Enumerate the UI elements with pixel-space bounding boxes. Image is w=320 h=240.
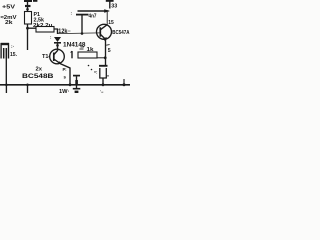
svg-text:15: 15: [108, 20, 114, 26]
svg-text:33: 33: [111, 4, 117, 10]
wire node B to T2 base: [58, 32, 100, 35]
junction dot emitter node: [104, 56, 107, 59]
wire R3 to emitter node: [97, 57, 105, 59]
node A junction dot: [26, 27, 29, 30]
svg-text:,,: ,,: [107, 72, 109, 77]
cap C2 thick lead: [75, 80, 78, 85]
capacitor C3 top plate: [99, 65, 108, 67]
ground terminal: [73, 85, 81, 93]
junction dots on rail: [5, 83, 125, 86]
svg-text:+5V: +5V: [2, 4, 15, 10]
svg-text:1N4148: 1N4148: [63, 42, 86, 49]
wire top rail y11: [78, 10, 109, 12]
svg-text:5: 5: [108, 48, 111, 54]
wire: [27, 1, 29, 12]
svg-text:15.: 15.: [10, 52, 17, 58]
wire segment mark: [71, 51, 73, 58]
wire R2 to diode: [54, 29, 58, 34]
capacitor C2 plate: [73, 75, 80, 77]
transistor T2: [97, 24, 112, 39]
svg-text:·12k··: ·12k··: [57, 29, 72, 35]
node junction dot left rail: [26, 8, 29, 11]
stub right rail: [123, 79, 125, 85]
junction dot cap lead: [81, 32, 84, 35]
wire mic to rail: [5, 59, 7, 85]
diode D1 1N4148: [54, 37, 61, 50]
svg-text:T1: T1: [42, 54, 49, 60]
svg-text:2k2 2u: 2k2 2u: [33, 23, 53, 29]
svg-text:1W·: 1W·: [59, 89, 70, 93]
wire below rail left: [5, 85, 7, 93]
svg-text:4n7: 4n7: [89, 14, 97, 20]
capacitor C1 lead: [81, 15, 83, 33]
svg-text:·,.: ·,.: [100, 89, 103, 94]
label tick top: [33, 0, 37, 2]
transistor T1: [49, 49, 65, 64]
svg-text:BC548B: BC548B: [22, 73, 54, 80]
wire T2 collector: [106, 12, 108, 25]
resistor R2: [36, 27, 54, 33]
resistor P1 25k: [25, 12, 32, 25]
wire below rail x27: [27, 85, 29, 93]
wire left rail down: [27, 24, 29, 50]
polarity marks C3: [88, 65, 96, 73]
capacitor C2 lead: [76, 77, 78, 85]
wire node A to R2: [28, 27, 36, 29]
tick marks above R3: [80, 48, 84, 50]
node +5V terminal bar: [24, 0, 32, 2]
microphone MIC1: [1, 43, 9, 59]
junction dot top right: [104, 9, 110, 13]
svg-text:2x: 2x: [36, 66, 43, 72]
terminal top right: [109, 1, 111, 9]
capacitor C3 lead: [102, 78, 104, 85]
capacitor C3 cup: [100, 68, 107, 78]
wire T2 emitter down: [105, 40, 107, 66]
capacitor C1 bottom plate: [76, 14, 89, 16]
ground rail: [0, 84, 130, 86]
resistor R3 1k: [78, 52, 97, 58]
svg-text:2k: 2k: [5, 20, 13, 26]
capacitor plate on +5V lead: [25, 5, 31, 7]
svg-text:BC547A: BC547A: [112, 30, 130, 36]
svg-text::·: :·: [11, 45, 14, 50]
svg-text:1k: 1k: [87, 47, 95, 53]
tick on emitter wire: [106, 44, 109, 47]
wire T1 emitter to rail: [61, 64, 70, 85]
T2 emitter arrow: [103, 37, 107, 42]
